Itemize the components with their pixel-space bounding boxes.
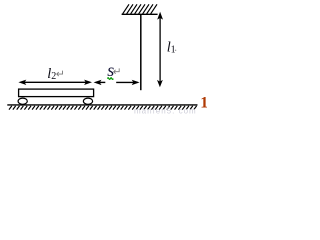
- ground line: [7, 104, 197, 106]
- svg-text:↵: ↵: [113, 66, 122, 78]
- svg-text:manfen5. com: manfen5. com: [134, 107, 197, 114]
- spellcheck squiggle under s: [107, 78, 113, 80]
- svg-text:↵: ↵: [56, 68, 65, 80]
- arrow s right segment: [116, 80, 139, 85]
- ground hatch: [9, 106, 197, 110]
- svg-text:1: 1: [200, 95, 207, 112]
- arrow l1 (vertical double-headed measure arrow): [157, 12, 163, 87]
- cart body: [19, 89, 94, 97]
- ceiling line: [122, 13, 158, 15]
- svg-text:1: 1: [171, 45, 176, 56]
- arrow s left segment: [94, 80, 106, 85]
- ceiling hatch: [123, 4, 157, 14]
- arrow l2 (horizontal double-headed measure arrow over cart): [18, 80, 92, 85]
- wheel right: [83, 98, 92, 104]
- rope (vertical string from ceiling): [140, 15, 142, 91]
- wheel left: [18, 98, 27, 104]
